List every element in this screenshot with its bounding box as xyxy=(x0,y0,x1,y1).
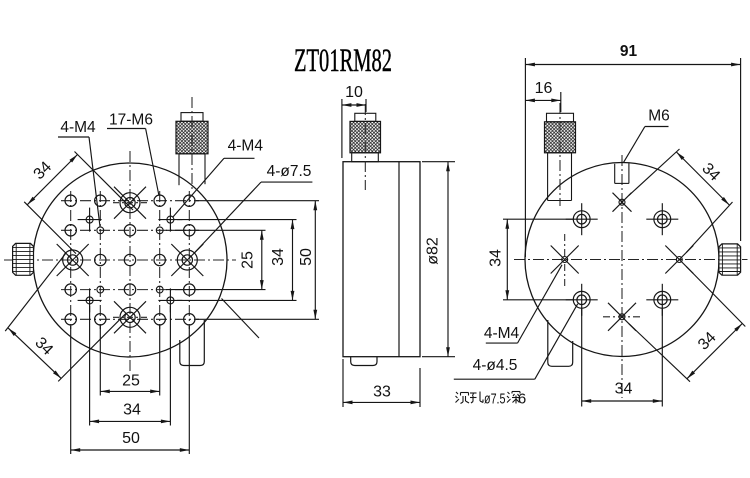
dimension phi82 xyxy=(422,162,455,357)
svg-text:ø7.5: ø7.5 xyxy=(484,391,506,408)
label counterbore note chen-kong dia7.5 shen 6 xyxy=(456,391,527,408)
wire / vertical center line of back view xyxy=(621,155,623,398)
wire / row 2 center line xyxy=(61,229,199,231)
front view side knurled knob xyxy=(13,243,34,275)
label 17-M6 xyxy=(107,112,159,195)
svg-text:50: 50 xyxy=(298,248,315,266)
wire / short center dashes top big hole xyxy=(113,202,147,204)
svg-text:25: 25 xyxy=(122,373,140,390)
back view mounting foot xyxy=(548,320,573,366)
svg-text:10: 10 xyxy=(345,84,363,101)
wire / column 2 center line xyxy=(99,191,101,329)
wire / row 5 center line xyxy=(61,318,199,320)
svg-text:4-ø7.5: 4-ø7.5 xyxy=(267,163,312,180)
dimension 50 vertical xyxy=(298,201,317,320)
wire / horizontal center line of front view xyxy=(4,259,236,261)
back view side knurled knob xyxy=(719,244,741,275)
dimension 10 top of side view xyxy=(342,84,366,158)
label 4-dia4.5 xyxy=(454,304,578,379)
svg-text:34: 34 xyxy=(615,381,633,398)
wire / column 1 center line xyxy=(70,191,72,329)
svg-text:17-M6: 17-M6 xyxy=(109,112,153,129)
svg-text:4-M4: 4-M4 xyxy=(484,325,520,342)
svg-text:4-M4: 4-M4 xyxy=(60,119,96,136)
wire / row 4 center line xyxy=(61,289,199,291)
holes 4-dia4.5 counterbored xyxy=(566,203,679,316)
dimension 25 vertical xyxy=(240,230,264,289)
svg-text:16: 16 xyxy=(535,80,553,97)
wire / extension lines right chain xyxy=(166,201,319,320)
back view plate circle xyxy=(525,163,719,357)
svg-text:25: 25 xyxy=(240,251,257,269)
dimension 34 bottom of back view xyxy=(582,308,663,407)
svg-text:33: 33 xyxy=(373,384,391,401)
svg-text:4-ø4.5: 4-ø4.5 xyxy=(473,357,518,374)
wire / side knob center line xyxy=(364,104,366,190)
svg-text:ø82: ø82 xyxy=(425,237,442,265)
dimension 34 diagonal upper right xyxy=(629,149,733,253)
dimension 50 bottom xyxy=(71,430,190,452)
back view top knurled knob xyxy=(545,113,576,200)
front view mounting foot xyxy=(180,320,205,366)
wire / side view platform split line xyxy=(398,162,400,357)
wire / column 4 center line xyxy=(159,191,161,329)
wire / extension lines bottom chain xyxy=(71,306,190,454)
wire / row 1 center line xyxy=(61,200,199,202)
dimension 34 vertical xyxy=(270,220,294,301)
holes 4-M4 inner square 25 xyxy=(97,227,163,293)
svg-text:6: 6 xyxy=(518,391,526,408)
holes 4-dia7.5 counterbore with X marks xyxy=(57,187,204,334)
svg-text:4-M4: 4-M4 xyxy=(228,138,264,155)
dimension 34 diagonal upper left xyxy=(24,152,133,254)
wire / X-arm extension of right big hole xyxy=(222,299,260,339)
dimension 16 xyxy=(525,80,560,112)
front view top knurled knob xyxy=(176,113,208,186)
dimension 34 left of back view xyxy=(488,219,574,300)
wire / vertical center line of front view xyxy=(129,151,131,374)
label 4-dia7.5 xyxy=(194,163,312,253)
svg-text:34: 34 xyxy=(488,249,505,267)
label 4-M4 upper right xyxy=(173,138,264,218)
side view body rectangle xyxy=(343,162,420,357)
svg-text:M6: M6 xyxy=(648,107,670,124)
wire / back knob center line xyxy=(559,103,561,206)
svg-text:34: 34 xyxy=(270,248,287,266)
holes 17-M6 grid xyxy=(65,195,195,325)
side view top knurled knob xyxy=(350,113,381,161)
wire / column 5 center line xyxy=(188,191,190,329)
svg-text:50: 50 xyxy=(122,430,140,447)
wire / horizontal center line of back view xyxy=(514,259,748,261)
wire / short center dashes bottom big hole xyxy=(113,316,147,318)
svg-text:34: 34 xyxy=(123,402,141,419)
dimension 34 diagonal lower left xyxy=(5,253,126,381)
side view mounting foot xyxy=(351,357,377,366)
label M6 xyxy=(623,107,669,163)
dimension 34 bottom xyxy=(90,402,171,424)
dimension 91 top xyxy=(525,43,740,257)
wire / top knob center line xyxy=(191,97,193,189)
front view plate circle phi82 xyxy=(33,163,227,357)
dimension 33 bottom of side view xyxy=(343,359,420,407)
svg-text:ZT01RM82: ZT01RM82 xyxy=(294,43,392,79)
holes 4-M4 back with X marks xyxy=(551,193,694,331)
label 4-M4 back xyxy=(484,265,562,343)
slot M6 radial hole xyxy=(615,163,629,183)
wire / horizontal dashes bottom M4 hole xyxy=(603,316,641,318)
svg-text:91: 91 xyxy=(620,43,638,60)
dimension 25 bottom xyxy=(100,373,159,394)
holes 4-M4 square 34 with cross marks xyxy=(78,208,183,313)
label 4-M4 upper left xyxy=(58,119,100,227)
title ZT01RM82 xyxy=(294,43,392,79)
dimension 34 diagonal lower right xyxy=(629,267,745,382)
wire / vertical dashes left M4 hole xyxy=(564,234,566,288)
